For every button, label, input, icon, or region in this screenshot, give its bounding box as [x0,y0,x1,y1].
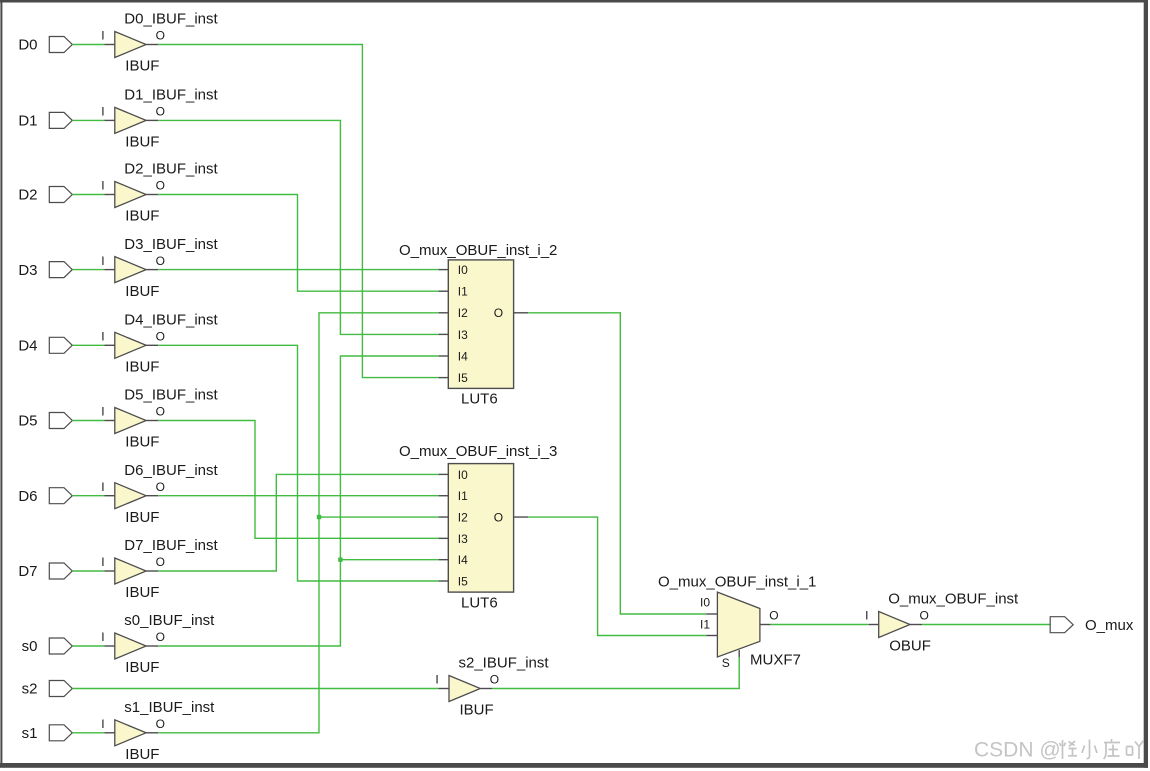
wire net D7_IBUF (to LUT6 i_3 pin I0) [158,474,438,571]
svg-text:I: I [101,717,104,731]
junction s1_IBUF at LUT6 i_3 pin I2 branch [317,515,321,519]
input port D0 [18,37,72,54]
svg-text:I: I [101,630,104,644]
svg-text:IBUF: IBUF [125,434,159,451]
svg-text:O: O [156,179,165,193]
junction s0_IBUF at LUT6 i_3 pin I4 branch [338,557,342,561]
input port D4 [18,337,72,354]
svg-text:I1: I1 [458,489,468,503]
svg-text:I5: I5 [458,371,468,385]
input port s1 [22,725,73,742]
svg-text:I1: I1 [458,285,468,299]
buffer D3_IBUF_inst (IBUF) [101,236,218,300]
svg-text:I: I [101,330,104,344]
svg-text:I: I [101,405,104,419]
wire net s2 (port to s2_IBUF_inst.I) [72,688,439,690]
svg-text:O_mux_OBUF_inst_i_3: O_mux_OBUF_inst_i_3 [399,443,557,460]
svg-text:s1_IBUF_inst: s1_IBUF_inst [124,699,215,716]
input port D6 [18,488,72,505]
svg-text:I: I [865,609,868,623]
wire net O_mux_OBUF_inst_i_3_n_0 (LUT6 i_3 O to MUXF7 I1) [528,517,706,635]
svg-text:O_mux: O_mux [1085,617,1134,634]
svg-text:I: I [101,555,104,569]
wire net D1_IBUF (to LUT6 i_2 pin I3) [158,120,438,334]
wire net D0_IBUF (to LUT6 i_2 pin I5) [158,45,438,378]
input port D5 [18,413,72,430]
svg-text:D5_IBUF_inst: D5_IBUF_inst [124,387,218,404]
svg-text:O: O [156,630,165,644]
wire net D2_IBUF (to LUT6 i_2 pin I1) [158,195,438,292]
svg-text:D5: D5 [18,413,37,430]
wire net D6 (port to D6_IBUF_inst.I) [72,495,104,497]
svg-text:O: O [769,608,778,622]
svg-text:IBUF: IBUF [125,134,159,151]
svg-text:s0: s0 [22,638,38,655]
svg-text:IBUF: IBUF [125,659,159,676]
svg-text:O_mux_OBUF_inst_i_2: O_mux_OBUF_inst_i_2 [399,242,557,259]
svg-text:s0_IBUF_inst: s0_IBUF_inst [124,612,215,629]
buffer O_mux_OBUF_inst (OBUF) [865,591,1019,655]
svg-text:D0: D0 [18,37,37,54]
buffer s2_IBUF_inst (IBUF) [435,655,549,719]
buffer s1_IBUF_inst (IBUF) [101,699,215,763]
svg-text:IBUF: IBUF [125,509,159,526]
svg-text:LUT6: LUT6 [461,391,498,408]
svg-text:I: I [435,673,438,687]
wire net D1 (port to D1_IBUF_inst.I) [72,119,104,121]
svg-text:I4: I4 [458,553,468,567]
buffer D2_IBUF_inst (IBUF) [101,161,218,225]
svg-text:D4_IBUF_inst: D4_IBUF_inst [124,312,218,329]
svg-text:D3_IBUF_inst: D3_IBUF_inst [124,236,218,253]
svg-text:D1: D1 [18,113,37,130]
LUT6 O_mux_OBUF_inst_i_3 [399,443,557,611]
svg-text:S: S [722,656,730,670]
svg-text:s2_IBUF_inst: s2_IBUF_inst [459,655,550,672]
wire net D5_IBUF (to LUT6 i_3 pin I3) [158,421,438,539]
svg-text:I2: I2 [458,510,468,524]
mux O_mux_OBUF_inst_i_1 (MUXF7) [658,573,816,670]
svg-text:s1: s1 [22,725,38,742]
svg-text:I0: I0 [700,596,710,610]
svg-text:O: O [494,510,503,524]
svg-text:IBUF: IBUF [125,58,159,75]
svg-text:CSDN @: CSDN @ [974,739,1061,762]
wire net D4_IBUF (to LUT6 i_3 pin I5) [158,345,438,581]
buffer D1_IBUF_inst (IBUF) [101,87,218,151]
wire net s1 (port to s1_IBUF_inst.I) [72,732,104,734]
wire net D7 (port to D7_IBUF_inst.I) [72,570,104,572]
svg-text:s2: s2 [22,681,38,698]
svg-text:O: O [490,673,499,687]
svg-text:O: O [920,609,929,623]
svg-text:LUT6: LUT6 [461,594,498,611]
svg-text:O: O [156,105,165,119]
wire net D0 (port to D0_IBUF_inst.I) [72,44,104,46]
svg-text:O: O [156,254,165,268]
wire net s0 (port to s0_IBUF_inst.I) [72,645,104,647]
svg-text:IBUF: IBUF [125,584,159,601]
wire net D2 (port to D2_IBUF_inst.I) [72,194,104,196]
output port O_mux [1050,617,1134,634]
svg-text:O_mux_OBUF_inst: O_mux_OBUF_inst [888,591,1019,608]
svg-text:I0: I0 [458,468,468,482]
svg-text:I3: I3 [458,532,468,546]
input port s2 [22,681,73,698]
svg-text:D2: D2 [18,187,37,204]
buffer D4_IBUF_inst (IBUF) [101,312,218,376]
wire net D4 (port to D4_IBUF_inst.I) [72,344,104,346]
wire net D3_IBUF (to LUT6 i_2 pin I0) [158,269,438,271]
svg-text:IBUF: IBUF [125,746,159,763]
wire net s0_IBUF (to LUT6 i_2 pin I4 and LUT6 i_3 pin I4) [158,356,438,646]
svg-text:D7: D7 [18,563,37,580]
svg-text:OBUF: OBUF [889,638,931,655]
svg-text:IBUF: IBUF [125,283,159,300]
buffer D0_IBUF_inst (IBUF) [101,11,218,75]
svg-text:I0: I0 [458,263,468,277]
input port s0 [22,638,73,655]
svg-text:I: I [101,254,104,268]
wire net D5 (port to D5_IBUF_inst.I) [72,420,104,422]
svg-text:O: O [156,330,165,344]
input port D7 [18,563,72,580]
svg-text:I: I [101,29,104,43]
input port D2 [18,187,72,204]
svg-text:I2: I2 [458,306,468,320]
svg-text:I3: I3 [458,328,468,342]
buffer D6_IBUF_inst (IBUF) [101,462,218,526]
wire net O_mux (OBUF O to output port) [922,624,1050,626]
svg-text:D6_IBUF_inst: D6_IBUF_inst [124,462,218,479]
svg-text:O: O [156,29,165,43]
wire net O_mux_OBUF_inst_i_2_n_0 (LUT6 i_2 O to MUXF7 I0) [528,313,706,614]
buffer D7_IBUF_inst (IBUF) [101,537,218,601]
wire net D3 (port to D3_IBUF_inst.I) [72,269,104,271]
wire net D6_IBUF (to LUT6 i_3 pin I1) [158,495,438,497]
watermark CSDN @怪小庄吖 [974,739,1144,762]
input port D1 [18,112,72,129]
buffer D5_IBUF_inst (IBUF) [101,387,218,451]
svg-text:I: I [101,179,104,193]
svg-text:I: I [101,480,104,494]
svg-text:IBUF: IBUF [460,702,494,719]
svg-text:I: I [101,105,104,119]
svg-text:D1_IBUF_inst: D1_IBUF_inst [124,87,218,104]
wire net O_mux_OBUF (MUXF7 O to OBUF I) [771,624,868,626]
svg-text:IBUF: IBUF [125,359,159,376]
svg-text:I1: I1 [700,617,710,631]
svg-text:O: O [156,480,165,494]
buffer s0_IBUF_inst (IBUF) [101,612,215,676]
svg-text:D2_IBUF_inst: D2_IBUF_inst [124,161,218,178]
svg-text:D3: D3 [18,262,37,279]
svg-text:IBUF: IBUF [125,208,159,225]
svg-text:MUXF7: MUXF7 [750,651,801,668]
svg-text:I5: I5 [458,574,468,588]
wire net s1_IBUF (to LUT6 i_2 pin I2 and LUT6 i_3 pin I2) [158,313,438,733]
input port D3 [18,262,72,279]
svg-text:O: O [156,555,165,569]
LUT6 O_mux_OBUF_inst_i_2 [399,242,557,408]
svg-text:I4: I4 [458,349,468,363]
svg-text:O: O [494,306,503,320]
svg-text:D0_IBUF_inst: D0_IBUF_inst [124,11,218,28]
svg-text:D6: D6 [18,488,37,505]
svg-text:O_mux_OBUF_inst_i_1: O_mux_OBUF_inst_i_1 [658,573,816,590]
svg-text:O: O [156,717,165,731]
svg-text:O: O [156,405,165,419]
svg-text:D4: D4 [18,338,37,355]
wire net s2_IBUF (s2_IBUF_inst.O to MUXF7 pin S) [492,657,739,688]
svg-text:D7_IBUF_inst: D7_IBUF_inst [124,537,218,554]
